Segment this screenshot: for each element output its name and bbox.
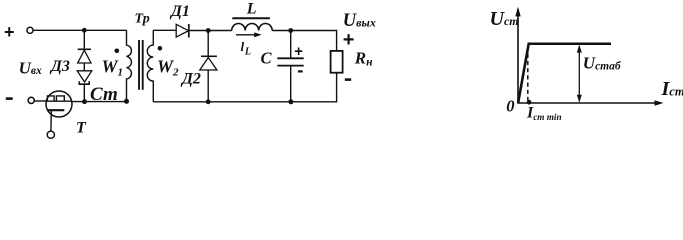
svg-text:0: 0 (506, 97, 514, 116)
dashed line Ist min (527, 47, 529, 101)
diode D1 (176, 24, 189, 38)
VI curve flat segment (528, 43, 612, 46)
input terminal plus (27, 27, 33, 33)
svg-text:Тр: Тр (135, 11, 150, 26)
svg-text:lL: lL (241, 39, 252, 58)
node D2 bottom junction (206, 99, 211, 104)
inductor L winding (232, 23, 273, 30)
svg-text:C: C (261, 49, 273, 68)
wire top rail primary (33, 29, 126, 31)
transformer core (139, 40, 143, 90)
svg-text:Uст: Uст (490, 8, 519, 30)
phasing dot W2 (158, 46, 163, 51)
resistor Rn (331, 51, 343, 73)
gate terminal (47, 131, 54, 138)
node on X axis (527, 100, 532, 105)
zener stabilitron St (77, 71, 92, 84)
wire C branch lower (290, 66, 292, 102)
svg-text:L: L (246, 0, 257, 17)
node C bottom junction (288, 99, 293, 104)
svg-text:Iст min: Iст min (526, 105, 562, 122)
svg-text:+: + (343, 29, 355, 51)
graph X axis (517, 100, 663, 106)
wire C branch upper (290, 31, 292, 58)
diode D3 (78, 49, 91, 63)
VI curve rising segment (518, 44, 528, 102)
phasing dot W1 (115, 49, 120, 54)
node W1 bottom (124, 99, 129, 104)
node D3 top junction (82, 28, 87, 33)
wire D3 to zener (83, 63, 85, 71)
node D2 top junction (206, 28, 211, 33)
graph Y axis (515, 7, 520, 103)
svg-text:Uвх: Uвх (19, 58, 42, 77)
svg-text:Iст: Iст (661, 78, 683, 100)
wire right branch lower (336, 73, 338, 103)
node C top junction (288, 28, 293, 33)
svg-text:Uстаб: Uстаб (583, 53, 622, 72)
wire zener to bottom rail (83, 84, 85, 101)
svg-text:Д1: Д1 (169, 3, 190, 20)
wire W2 top to D1 (153, 29, 176, 31)
svg-text:+: + (4, 22, 15, 42)
node zener bottom junction (82, 99, 87, 104)
inductor L core bar (232, 17, 270, 19)
wire transistor drain to W1 bottom (72, 101, 127, 103)
wire D3 branch (83, 30, 85, 50)
svg-text:Rн: Rн (354, 48, 373, 68)
svg-text:+: + (294, 43, 303, 60)
input terminal minus (28, 97, 34, 103)
dimension arrow Ustab (577, 45, 582, 103)
capacitor C (277, 58, 303, 65)
minus label (capacitor) (298, 70, 303, 72)
wire secondary bottom rail (153, 101, 336, 103)
minus label (output) (345, 78, 351, 81)
svg-text:W1: W1 (102, 56, 124, 78)
diode D2 (200, 56, 217, 70)
wire inductor to right corner (272, 30, 336, 32)
gate lead wire (50, 110, 52, 131)
transistor T (switch) (46, 91, 72, 117)
winding W2 (147, 30, 153, 102)
svg-text:Д2: Д2 (180, 70, 201, 87)
wire D2 branch upper (207, 31, 209, 57)
svg-text:Д3: Д3 (49, 58, 70, 75)
wire right branch upper (336, 30, 338, 51)
svg-text:W2: W2 (157, 56, 179, 78)
wire D2 branch lower (207, 70, 209, 102)
wire input minus to transistor (34, 100, 47, 102)
minus polarity label (input) (6, 97, 13, 100)
winding W1 (127, 30, 132, 101)
current arrow iL (236, 32, 262, 37)
svg-text:T: T (76, 119, 87, 136)
wire D1 to inductor (189, 30, 232, 32)
